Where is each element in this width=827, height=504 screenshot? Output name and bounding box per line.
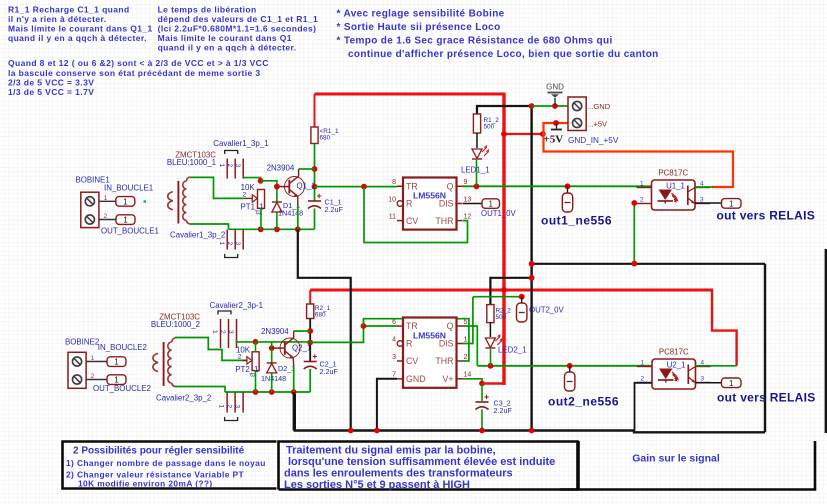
wire T1 bottom lead [190,224,229,229]
net flag out2 [565,366,575,391]
svg-text:Cavalier2_3p-1: Cavalier2_3p-1 [210,301,264,310]
wire D2 bottom [271,373,273,392]
svg-text:1: 1 [114,358,119,367]
wire C2_1 bottom [309,369,311,392]
wire U1 pin2 down [633,203,635,264]
svg-text:Gain sur le signal: Gain sur le signal [632,453,720,465]
junction chip2 GND at bus [374,428,380,434]
LM556N ch1 pins [388,179,471,226]
svg-text:3: 3 [254,211,261,215]
wire ch1 ground path [298,229,351,430]
svg-text:1N4148: 1N4148 [278,209,303,218]
frame box sensibilite [63,442,277,489]
transistor Q1_1 [277,169,316,205]
svg-text:3: 3 [234,405,241,409]
port OUT1_0V [482,199,500,209]
note block mid-left [8,58,269,97]
svg-text:2: 2 [91,373,95,380]
frame box gain [560,441,815,490]
wire emitter bus ch2 [225,391,310,393]
svg-text:9: 9 [464,179,468,186]
wire THR loop ch1 [364,187,468,243]
junction +5V branch left [501,131,507,137]
junction LED2 output [488,363,494,369]
svg-text:Cavalier1_3p_1: Cavalier1_3p_1 [213,139,268,148]
capacitor C2_1 [304,354,339,376]
wire DIS riser ch2 [463,297,473,344]
svg-text:Cavalier1_3p_2: Cavalier1_3p_2 [170,231,225,240]
svg-text:1: 1 [218,242,225,246]
wire jumper2 pin3 down [237,339,256,342]
resistor R2_1 [307,304,331,319]
svg-text:R: R [406,339,412,349]
svg-text:1N4148: 1N4148 [261,374,286,383]
port out relais 2 [722,378,742,388]
svg-text:5: 5 [464,319,468,326]
svg-text:12: 12 [464,213,472,220]
svg-text:IN_BOUCLE1: IN_BOUCLE1 [104,184,153,193]
svg-text:BLEU:1000_2: BLEU:1000_2 [151,320,200,329]
wire V+ to red bus [482,382,505,384]
svg-text:THR: THR [435,356,453,366]
svg-text:(Ici 2.2uF*0.680M*1.1=1.6 seco: (Ici 2.2uF*0.680M*1.1=1.6 secondes) [158,24,317,34]
wire LED2 to output [490,349,492,366]
wire C1_1 bottom [314,209,316,230]
svg-text:1: 1 [729,379,734,388]
svg-text:1: 1 [464,336,468,343]
svg-text:8: 8 [392,179,396,186]
wire THR loop ch2 [364,319,469,361]
svg-text:* Sortie Haute sii présence Lo: * Sortie Haute sii présence Loco [337,22,501,33]
svg-text:BOBINE2: BOBINE2 [65,338,99,347]
wire LED1 to output [476,160,478,186]
svg-text:Q1_1: Q1_1 [297,182,316,191]
svg-text:13: 13 [464,196,472,203]
svg-text:10K modifie environ 20mA (??): 10K modifie environ 20mA (??) [78,479,213,489]
svg-text:V+: V+ [442,374,453,384]
junction C3_2 at bus [479,428,485,434]
wire GND rail vertical [530,106,532,431]
junction emitter ch1 [295,226,301,232]
resistor R2_2 [487,305,511,323]
port IN_BOUCLE2 [107,357,126,367]
junction relay return [529,261,535,267]
junction U1 pin2 top [631,200,637,206]
svg-text:500: 500 [496,314,507,321]
wire PT2 top stub [255,342,257,352]
junction THR loop ch2 [361,323,367,329]
wire U1 pin3 [695,202,722,204]
svg-text:2.2uF: 2.2uF [325,205,344,214]
wire D2 riser [271,342,273,363]
ground symbol GND top [546,83,564,107]
svg-text:3: 3 [234,242,241,246]
svg-text:11: 11 [389,213,396,220]
wire emitter ch1 [297,205,299,229]
connector BOBINE2 [68,352,86,388]
wire Q output bus ch2 [477,365,652,367]
svg-text:3: 3 [227,330,234,334]
svg-text:U1_1: U1_1 [666,182,685,191]
svg-text:GND: GND [546,83,564,92]
svg-text:2N3904: 2N3904 [261,327,289,336]
jumper Cavalier2_3p-1 [211,311,236,348]
junction +5V terminal tap [553,120,559,126]
svg-text:lorsqu'une tension suffisammen: lorsqu'une tension suffisamment élevée e… [288,456,555,468]
svg-text:3: 3 [701,376,705,383]
wire OUT2_0V horizontal [473,296,522,298]
wire collector ch2 [294,330,311,332]
wire Q output riser ch2 [463,326,478,366]
wire R1_2 to LED1 [476,133,478,148]
wire Q output ch1 [463,185,652,187]
wire PT2 bottom [255,371,257,392]
svg-text:la bascule conserve son état p: la bascule conserve son état précédant d… [8,68,261,78]
text box traitement [284,445,555,492]
op-amp U4 LM556N body ch2 [403,318,457,388]
junction GND symbol tap [552,103,558,109]
svg-text:quand il y en a qqch à détecte: quand il y en a qqch à détecter. [8,33,147,43]
svg-text:1) Changer nombre de passage d: 1) Changer nombre de passage dans le noy… [66,458,266,468]
svg-text:1: 1 [640,181,644,188]
svg-text:CV: CV [406,356,418,366]
svg-text:Traitement du signal emis par: Traitement du signal emis par la bobine, [286,445,496,457]
jumper Cavalier1_3p_2 [218,230,243,258]
svg-text:continue d'afficher présence L: continue d'afficher présence Loco, bien … [348,49,659,60]
svg-text:2: 2 [226,405,233,409]
wire PT1 top to D1 [261,181,277,202]
wire red bus channel2 [310,289,713,292]
wire relay return horizontal [532,263,765,265]
wire ch2 ground path [293,392,295,431]
wire R2_1 to collector black [309,319,311,362]
wire R2_2 feed black [490,278,531,305]
port OUT_BOUCLE2 [107,375,126,385]
transformer T2 [153,338,175,387]
diode D2_1 [261,363,295,383]
frame box traitement [279,442,578,490]
svg-text:2.2uF: 2.2uF [320,367,339,376]
svg-text:dépend des valeurs de C1_1 et: dépend des valeurs de C1_1 et R1_1 [158,14,319,24]
potentiometer PT1_1 [241,190,265,216]
svg-text:1: 1 [489,200,494,209]
svg-text:U2_1: U2_1 [667,361,686,370]
svg-text:500: 500 [484,124,495,131]
note block top-left 1 [8,4,153,43]
wire TR ch2 [310,326,397,342]
svg-text:1: 1 [123,216,128,225]
wire TR ch1 [315,186,398,188]
svg-text:3: 3 [392,354,396,361]
note block top-left 2 [158,4,319,52]
wire T2 top lead [175,338,248,361]
capacitor C3_2 [476,395,513,415]
svg-text:1: 1 [104,195,108,202]
svg-text:LED2_1: LED2_1 [498,346,527,355]
wire GND pin chip2 [377,379,397,431]
svg-text:3: 3 [234,164,241,168]
junction D1 bottom [274,226,280,232]
junction OUT2_0V [519,294,525,300]
junction U1 pin2 bottom [631,261,637,267]
text box sensibilite [66,446,266,489]
port out relais 1 [722,199,742,209]
svg-text:il n'y a rien à détecter.: il n'y a rien à détecter. [8,14,106,24]
svg-text:1: 1 [218,164,225,168]
svg-text:4: 4 [392,336,396,343]
svg-text:LED1_1: LED1_1 [461,166,490,175]
wire PT2 top to TR row [256,341,311,343]
junction red bus at +5V vertical [501,287,507,293]
junction out1 flag tap [565,183,571,189]
svg-text:1: 1 [91,355,95,362]
svg-text:* Avec reglage sensibilité Bob: * Avec reglage sensibilité Bobine [337,9,505,20]
svg-text:2.2uF: 2.2uF [494,406,513,415]
junction GND rail top [529,103,535,109]
svg-text:Quand 8 et 12 ( ou 6 &2) sont: Quand 8 et 12 ( ou 6 &2) sont < à 2/3 de… [8,58,269,68]
svg-text:* Tempo de 1.6 Sec grace Résis: * Tempo de 1.6 Sec grace Résistance de 6… [337,35,613,46]
svg-text:Q: Q [447,182,454,192]
wire emitter bus ch1 [229,228,315,230]
svg-text:680: 680 [320,135,331,142]
wire collector ch1 [299,168,315,170]
junction TR tap ch1 [312,184,318,190]
svg-text:IN_BOUCLE2: IN_BOUCLE2 [98,343,147,352]
svg-text:2: 2 [104,213,108,220]
diode D1_1 [272,201,303,218]
svg-text:TR: TR [406,321,418,331]
junction V+ node [479,381,485,387]
junction collector Q2_1 [307,328,313,334]
svg-text:10: 10 [388,196,396,203]
svg-text:2: 2 [238,353,242,360]
svg-text:quand il y en a qqch à détecte: quand il y en a qqch à détecter. [158,43,297,53]
junction PT2 top [253,339,259,345]
junction PT2 bottom [253,389,259,395]
junction Q2 base tap [269,345,275,351]
pin 2 BOBINE1 [99,213,116,220]
LM556N ch2 pins [392,319,471,384]
LED LED1_1 [472,146,488,159]
svg-text:1: 1 [211,330,218,334]
pin 1 BOBINE2 [86,355,107,362]
resistor R1_2 [473,114,499,133]
junction D2 bottom [269,389,275,395]
wire R2_1 top red [309,290,311,304]
svg-text:THR: THR [435,216,453,226]
svg-text:CV: CV [406,216,418,226]
svg-text:2: 2 [226,164,233,168]
svg-text:out2_ne556: out2_ne556 [548,395,619,409]
junction PT1 bottom [258,226,264,232]
wire DIS to OUT1_0V [463,203,482,205]
wire black rail from R1_2 top [477,106,532,114]
wire +5V bus vertical [502,94,505,385]
svg-text:R1_1 Recharge C1_1 quand: R1_1 Recharge C1_1 quand [8,4,130,14]
port IN_BOUCLE1 [116,197,135,207]
svg-text:GND_IN_+5V: GND_IN_+5V [568,136,619,145]
junction ch1 ground at bus [348,428,354,434]
transformer T1 [168,177,190,224]
wire ground bus bottom [295,392,634,431]
connector GND_IN_+5V [568,97,586,131]
svg-text:OUT2_0V: OUT2_0V [529,306,564,315]
optocoupler U2_1 [637,348,711,390]
svg-text:out1_ne556: out1_ne556 [541,214,612,228]
capacitor C1_1 [308,194,343,214]
wire GND green to terminal [532,105,568,107]
svg-text:14: 14 [464,372,472,379]
svg-text:2: 2 [219,330,226,334]
port OUT_BOUCLE1 [116,215,135,225]
LED LED2_1 [485,335,501,348]
svg-text:R: R [406,199,412,209]
svg-text:2: 2 [640,197,644,204]
junction +5V branch right [540,131,546,137]
svg-text:680: 680 [315,312,326,319]
wire R1_1 to collector green [314,144,316,202]
svg-text:2/3 de 5 VCC = 3.3V: 2/3 de 5 VCC = 3.3V [8,77,94,87]
svg-text:Mais limite le courant dans Q1: Mais limite le courant dans Q1 [158,33,292,43]
svg-text:2: 2 [226,242,233,246]
wire U2 pin3 [696,382,722,384]
connector BOBINE1 [81,192,99,227]
wire R1_1 top red [314,94,316,127]
svg-text:PC817C: PC817C [659,348,689,357]
svg-text:DIS: DIS [439,339,454,349]
optocoupler U1_1 [637,169,711,211]
op-amp U3 LM556N body ch1 [403,178,457,230]
wire emitter ch2 [293,366,295,392]
junction Q1 base tap [274,184,280,190]
junction THR loop ch1 [361,184,367,190]
wire C3_2 bottom [481,410,483,431]
wire red to U2 pin4 [712,290,737,366]
junction emitter ch2 [291,389,297,395]
svg-text:2 Possibilités pour régler sen: 2 Possibilités pour régler sensibilité [73,446,245,457]
svg-text:OUT_BOUCLE2: OUT_BOUCLE2 [93,384,151,393]
svg-text:1: 1 [218,405,225,409]
svg-text:1: 1 [640,360,644,367]
svg-text:TR: TR [406,182,418,192]
svg-text:Les sorties N°5 et 9 passent à: Les sorties N°5 et 9 passent à HIGH [284,479,470,491]
svg-text:1/3 de 5 VCC = 1.7V: 1/3 de 5 VCC = 1.7V [8,87,94,97]
wire C3_2 top [481,384,483,403]
svg-text:D2_1: D2_1 [278,364,295,373]
svg-text:6: 6 [392,319,396,326]
power flag +5V [544,123,564,146]
wire U2 pin4 green [696,365,737,367]
svg-text:dans les enroulements des tran: dans les enroulements des transformateur… [284,468,513,480]
wire T1 top lead [190,177,244,198]
resistor R1_1 [311,127,339,144]
wire V+ chip2 [463,379,483,384]
svg-text:out vers RELAIS: out vers RELAIS [717,209,816,223]
svg-text:1: 1 [114,376,119,385]
svg-text:Q2_1: Q2_1 [292,344,311,353]
wire U2 pin2 return [635,383,653,431]
svg-text:2: 2 [640,376,644,383]
svg-text:...+5V: ...+5V [587,120,608,129]
svg-text:2: 2 [243,191,247,198]
potentiometer PT2_1 [235,352,259,378]
junction TR tap ch2 [307,340,313,346]
svg-text:3: 3 [249,373,256,377]
net flag OUT2_0V [517,297,527,322]
svg-text:DIS: DIS [439,199,454,209]
wire D1 bottom [276,213,278,230]
svg-text:2: 2 [464,354,468,361]
pin 1 BOBINE1 [99,195,116,202]
svg-text:2N3904: 2N3904 [267,164,295,173]
junction out2 flag tap [567,363,573,369]
wire ground bus bottom right [634,431,765,433]
wire relay return right vertical [764,264,766,433]
net flag out1 [562,186,572,212]
wire +5V feed from terminal [544,123,734,187]
svg-text:BLEU:1000_1: BLEU:1000_1 [167,158,216,167]
pin 2 BOBINE2 [86,373,107,380]
svg-text:Mais limite le courant dans Q1: Mais limite le courant dans Q1_1 [8,24,153,34]
svg-text:PC817C: PC817C [658,169,688,178]
svg-text:Le temps de libération: Le temps de libération [158,4,257,14]
wire +5V branch to regulator row [504,133,545,135]
wire jumper1 pin3 down [243,178,260,181]
junction LED1 output [474,183,480,189]
note block top-right [337,9,659,60]
svg-text:Cavalier2_3p_2: Cavalier2_3p_2 [156,394,211,403]
svg-text:out vers RELAIS: out vers RELAIS [717,391,816,405]
wire T2 bottom lead [175,387,225,393]
svg-text:Q: Q [447,321,454,331]
wire PT1 bottom [260,208,262,229]
svg-text:GND: GND [406,374,426,384]
wire R2_2 to LED2 [489,323,491,337]
junction collector Q1_1 [312,166,318,172]
stub green dot [144,201,146,203]
svg-text:1: 1 [729,199,734,208]
junction R2_2 feed [529,275,535,281]
svg-text:1: 1 [123,197,128,206]
junction ground bus x531 [529,428,535,434]
transistor Q2_1 [272,331,312,366]
junction PT1 top [258,178,264,184]
jumper Cavalier2_3p_2 [218,393,243,421]
svg-text:OUT1_0V: OUT1_0V [481,209,516,218]
svg-text:...GND: ...GND [587,102,611,111]
jumper Cavalier1_3p_1 [218,151,243,179]
svg-text:OUT_BOUCLE1: OUT_BOUCLE1 [101,227,159,236]
wire +5V bus top horizontal [315,93,506,96]
svg-text:+5V: +5V [544,134,564,146]
wire edge rail right [825,249,827,433]
wire U1 pin4 green [695,186,713,188]
svg-text:7: 7 [392,372,396,379]
